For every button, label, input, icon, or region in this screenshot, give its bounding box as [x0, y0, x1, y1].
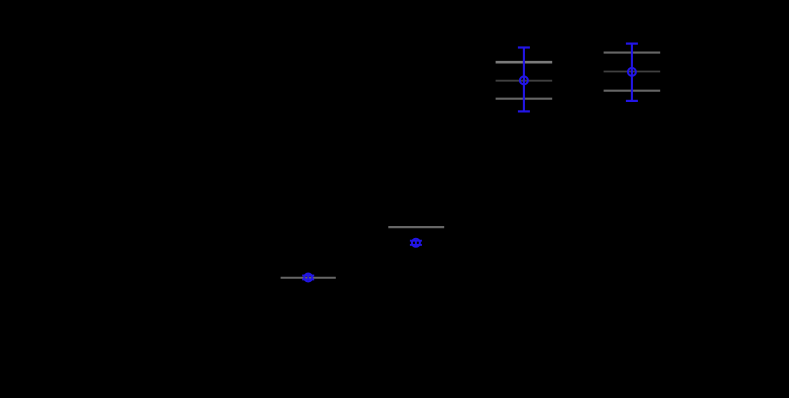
data point P2 (blue error bar with open circle marker): [626, 44, 638, 101]
data point P1 (blue error bar with open circle marker): [518, 48, 530, 112]
cluster 2 lower level line (gray): [604, 90, 661, 92]
level line L3 (gray, point 3): [388, 226, 444, 228]
level line L4 (gray, point 4): [281, 277, 336, 279]
cluster 2 middle level line (dark gray): [604, 71, 661, 73]
data point P4 (blue marker with tiny error bar): [302, 274, 314, 282]
data point P3 (blue marker with tiny error bar): [410, 239, 422, 247]
cluster 1 lower level line (gray): [496, 98, 553, 100]
cluster 2 upper level line (gray): [604, 52, 661, 54]
cluster 1 middle level line (dark gray): [496, 80, 553, 82]
cluster 1 upper level line (gray): [496, 61, 553, 64]
